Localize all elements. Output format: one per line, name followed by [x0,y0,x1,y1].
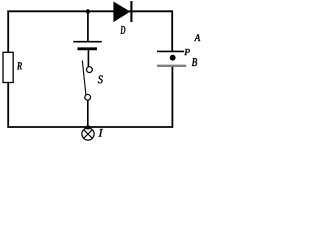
wire right lower (from capacitor bottom plate) [171,66,173,128]
node junction dot bottom [86,125,90,129]
resistor R (rectangle on left wire) [3,52,13,82]
wire middle branch: junction to battery [87,11,89,41]
lamp I (circle with X) [82,128,94,140]
lamp X stroke 1 [84,130,92,138]
wire switch bottom terminal to bottom junction [87,100,89,127]
wire left side [7,10,9,127]
label S [98,76,103,84]
label I [99,129,104,137]
label D [121,26,126,34]
diode D triangle [113,2,130,23]
lamp X stroke 2 [84,130,92,138]
switch S bottom terminal circle [85,94,91,100]
charged particle P (dot between plates) [170,55,176,61]
capacitor top plate A [157,50,184,52]
wire bottom [7,126,172,128]
capacitor bottom plate B (gray) [157,65,186,67]
wire top (left node to right node) [7,10,172,12]
diode D cathode bar [130,1,132,22]
wire right upper (to capacitor top plate) [171,10,173,51]
node junction dot top [86,9,90,13]
switch S blade (open) [82,60,86,94]
label R [17,62,22,69]
switch S top terminal circle [87,67,93,73]
label B [192,58,197,66]
battery cell: short thick negative plate [78,47,98,50]
label P [184,49,190,55]
label A [194,34,200,41]
wire battery to switch top terminal [87,49,89,67]
battery cell: long thin positive plate [73,41,102,43]
